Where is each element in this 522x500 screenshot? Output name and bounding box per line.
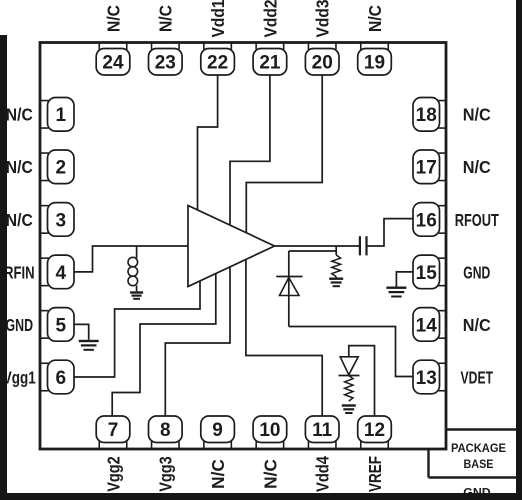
op-amp amplifier triangle U1: [188, 206, 275, 287]
svg-text:12: 12: [364, 420, 385, 441]
svg-text:3: 3: [56, 210, 67, 231]
pin 20 (Vdd3): [305, 43, 339, 76]
svg-text:13: 13: [416, 368, 437, 389]
diode D1 (detector): [288, 251, 290, 277]
ground (resistor R1): [329, 278, 343, 280]
wire capacitor to pin 16 RFOUT: [367, 219, 414, 246]
svg-text:N/C: N/C: [365, 5, 385, 32]
pin 8 (Vgg3): [149, 416, 183, 449]
pin 16 (RFOUT): [413, 203, 446, 237]
wire diode D1 down: [288, 278, 290, 327]
wire Vgg2 from pin 7 to amp: [112, 273, 216, 416]
svg-text:RFIN: RFIN: [4, 262, 35, 282]
wire GND pin 15: [396, 272, 413, 287]
svg-text:9: 9: [212, 420, 223, 441]
svg-text:GND: GND: [463, 262, 490, 282]
svg-text:N/C: N/C: [6, 105, 33, 125]
svg-text:N/C: N/C: [6, 210, 33, 230]
svg-text:23: 23: [155, 53, 176, 74]
pin 13 (VDET): [413, 360, 446, 394]
ground (inductor): [130, 291, 143, 293]
pin 11 (Vdd4): [305, 416, 339, 449]
wire Vdd2 from pin 21 to amp: [230, 75, 270, 225]
svg-text:7: 7: [108, 420, 119, 441]
pin 21 (Vdd2): [253, 43, 287, 76]
svg-text:RFOUT: RFOUT: [455, 210, 499, 230]
wire output tap down: [289, 246, 336, 251]
svg-text:11: 11: [312, 420, 333, 441]
pin 14 (N/C): [413, 308, 446, 342]
diode D2 (VREF chain): [340, 357, 358, 375]
pin 7 (Vgg2): [96, 416, 130, 449]
border strip bottom: [0, 493, 522, 500]
svg-text:VDET: VDET: [461, 367, 494, 387]
svg-text:18: 18: [416, 105, 437, 126]
ground (pin 15): [386, 287, 406, 289]
svg-text:N/C: N/C: [156, 5, 176, 32]
svg-text:N/C: N/C: [463, 315, 491, 335]
resistor R2 (VREF chain): [345, 376, 353, 402]
svg-text:20: 20: [312, 53, 333, 74]
svg-text:Vdd3: Vdd3: [313, 0, 333, 38]
capacitor C1 (series output): [359, 236, 361, 255]
wire Vgg1 from pin 6 to amp: [74, 281, 200, 377]
pin 10 (N/C): [253, 416, 287, 449]
svg-text:4: 4: [56, 263, 67, 284]
svg-text:24: 24: [102, 53, 124, 74]
svg-text:N/C: N/C: [103, 5, 123, 32]
svg-text:17: 17: [416, 158, 437, 179]
wire Vgg3 from pin 8 to amp: [165, 267, 230, 416]
wire VREF from pin 12: [349, 346, 375, 416]
svg-text:14: 14: [416, 315, 438, 336]
svg-text:Vdd2: Vdd2: [260, 0, 280, 38]
svg-text:N/C: N/C: [208, 459, 228, 489]
svg-text:N/C: N/C: [6, 157, 33, 177]
pin 24 (N/C): [96, 43, 130, 76]
wire amp output to capacitor: [275, 245, 360, 247]
resistor R1 (shunt on output): [335, 251, 337, 255]
svg-text:15: 15: [416, 263, 438, 284]
pin 15 (GND): [413, 255, 446, 289]
svg-text:GND: GND: [6, 315, 34, 335]
pin 18 (N/C): [413, 98, 446, 132]
svg-text:Vgg3: Vgg3: [156, 456, 176, 492]
pin 12 (VREF): [358, 416, 392, 449]
package outline: [40, 43, 446, 450]
wire to pin 13 VDET: [289, 327, 413, 377]
border strip right: [516, 0, 522, 500]
svg-text:21: 21: [259, 53, 281, 74]
ground (pin 5): [79, 340, 99, 342]
svg-text:N/C: N/C: [463, 157, 491, 177]
pin 19 (N/C): [358, 43, 392, 76]
svg-text:N/C: N/C: [463, 105, 491, 125]
wire Vdd3 from pin 20 to amp: [246, 75, 322, 233]
svg-text:6: 6: [56, 368, 67, 389]
svg-text:Vdd4: Vdd4: [313, 456, 333, 492]
pin 2 (N/C): [40, 150, 74, 184]
wire Vdd1 from pin 22 to amp: [198, 75, 218, 210]
svg-text:PACKAGE: PACKAGE: [451, 441, 506, 455]
svg-text:Vgg1: Vgg1: [3, 367, 36, 387]
svg-text:VREF: VREF: [365, 456, 385, 492]
pin 9 (N/C): [201, 416, 235, 449]
wire RFIN from pin 4: [74, 246, 188, 272]
svg-text:19: 19: [364, 53, 385, 74]
wire GND pin 5: [74, 324, 89, 339]
pin 5 (GND): [40, 308, 74, 342]
svg-text:Vgg2: Vgg2: [103, 456, 123, 492]
svg-text:2: 2: [56, 158, 67, 179]
svg-text:N/C: N/C: [260, 459, 280, 489]
svg-text:22: 22: [207, 53, 228, 74]
border strip left: [0, 35, 7, 500]
pin 22 (Vdd1): [201, 43, 235, 76]
pin 17 (N/C): [413, 150, 446, 184]
pin 6 (Vgg1): [40, 360, 74, 394]
ground (R2): [342, 404, 356, 406]
svg-text:BASE: BASE: [464, 457, 494, 471]
pin 23 (N/C): [149, 43, 183, 76]
pin 3 (N/C): [40, 203, 74, 237]
svg-text:16: 16: [416, 210, 437, 231]
wire Vdd4 from pin 11 to amp: [246, 259, 322, 416]
inductor L1 (shunt on input): [136, 246, 138, 258]
package base box: [446, 428, 522, 430]
svg-text:10: 10: [259, 420, 280, 441]
svg-text:1: 1: [56, 105, 67, 126]
svg-text:8: 8: [160, 420, 171, 441]
svg-text:5: 5: [56, 315, 67, 336]
svg-text:Vdd1: Vdd1: [208, 0, 228, 38]
pin 1 (N/C): [40, 98, 74, 132]
pin 4 (RFIN): [40, 255, 74, 289]
